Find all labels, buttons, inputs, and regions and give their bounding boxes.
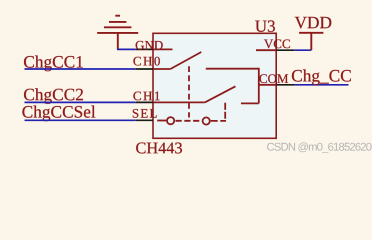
wire ChgCCSel net bbox=[25, 119, 136, 121]
pin COM name bbox=[259, 74, 288, 83]
wire Chg_CC net bbox=[294, 84, 348, 86]
CH1 internal lead bbox=[153, 101, 205, 103]
CH0 internal lead bbox=[153, 68, 170, 70]
net label ChgCC2 bbox=[24, 88, 83, 104]
pin VCC bbox=[276, 49, 294, 51]
pin CH1 name bbox=[133, 92, 159, 101]
CH0 fixed contact line bbox=[206, 68, 259, 70]
COM internal stub bbox=[259, 84, 276, 86]
U3 designator bbox=[255, 20, 275, 32]
wire VCC to VDD bbox=[294, 49, 311, 51]
pin CH0 bbox=[136, 68, 153, 70]
CH1 fixed contact line bbox=[241, 102, 259, 104]
pin SEL bbox=[136, 119, 153, 121]
net label Chg_CC bbox=[292, 69, 351, 85]
wire ChgCC1 net bbox=[25, 68, 136, 70]
pin SEL name bbox=[133, 109, 157, 118]
dashed control riser to CH0 blade bbox=[188, 66, 190, 117]
part value CH443 bbox=[136, 143, 182, 154]
SEL dashed control line a bbox=[176, 120, 202, 122]
analog switch U3 body bbox=[153, 33, 276, 138]
pin GND name bbox=[136, 41, 163, 50]
SEL inverter bubble 2 bbox=[203, 117, 210, 124]
SEL inverter bubble 1 bbox=[167, 117, 174, 124]
wire ChgCC2 net bbox=[25, 101, 136, 103]
pin COM bbox=[276, 84, 294, 86]
dashed control riser to CH1 blade bbox=[224, 103, 226, 119]
CH0 switch blade bbox=[170, 52, 201, 69]
GND internal stub bbox=[153, 48, 173, 50]
net label ChgCC1 bbox=[24, 56, 83, 72]
pin CH0 name bbox=[133, 57, 160, 66]
ground bbox=[97, 16, 138, 50]
net label ChgCCSel bbox=[22, 106, 95, 122]
SEL internal lead bbox=[157, 120, 166, 122]
wire GND net bbox=[117, 48, 136, 50]
power port VDD bbox=[299, 33, 323, 50]
power net VDD label bbox=[295, 17, 332, 29]
watermark bbox=[267, 142, 372, 152]
COM bus vertical bbox=[258, 68, 260, 104]
pin GND bbox=[136, 48, 153, 50]
VCC internal stub bbox=[256, 49, 276, 51]
pin VCC name bbox=[264, 40, 290, 49]
SEL dashed control line b bbox=[211, 120, 226, 122]
pin CH1 bbox=[136, 101, 153, 103]
CH1 switch blade bbox=[205, 86, 236, 102]
